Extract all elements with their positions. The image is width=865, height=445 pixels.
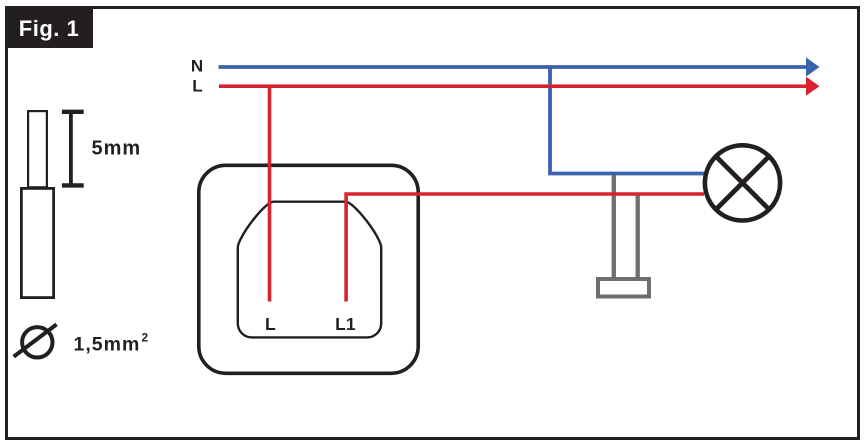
stripped wire diagram: insulated sheath — [21, 188, 53, 297]
switch S1: outer plate — [199, 165, 418, 373]
lamp pendant: base block — [598, 279, 649, 297]
diameter symbol — [14, 324, 57, 357]
lamp E1: cross — [716, 156, 769, 209]
svg-text:1,5mm: 1,5mm — [74, 333, 141, 355]
wire: L bus (red) — [219, 84, 807, 88]
svg-text:L: L — [265, 314, 276, 334]
lamp E1: circle — [705, 145, 780, 220]
wire: N bus (blue) — [219, 65, 808, 69]
wire: red drop from L bus to switch terminal L — [268, 86, 272, 301]
svg-text:L: L — [192, 76, 202, 95]
svg-text:N: N — [191, 56, 203, 75]
Fig. 1 label box — [5, 6, 93, 48]
stripped wire diagram: bare conductor — [28, 111, 47, 187]
L bus arrowhead — [806, 77, 820, 96]
switch S1: rocker face — [238, 202, 381, 338]
wire: blue drop from N bus to lamp — [550, 67, 704, 174]
svg-text:L1: L1 — [335, 314, 356, 334]
lamp pendant: left gray lead — [612, 174, 616, 281]
svg-text:Fig. 1: Fig. 1 — [19, 16, 79, 41]
wire: red from switch terminal L1 to lamp — [346, 194, 704, 302]
svg-text:2: 2 — [142, 331, 149, 345]
svg-text:5mm: 5mm — [92, 138, 142, 160]
lamp pendant: right gray lead — [636, 195, 640, 281]
N bus arrowhead — [806, 57, 820, 76]
5mm dimension bar — [62, 112, 84, 186]
1,5mm2 label — [74, 331, 149, 356]
